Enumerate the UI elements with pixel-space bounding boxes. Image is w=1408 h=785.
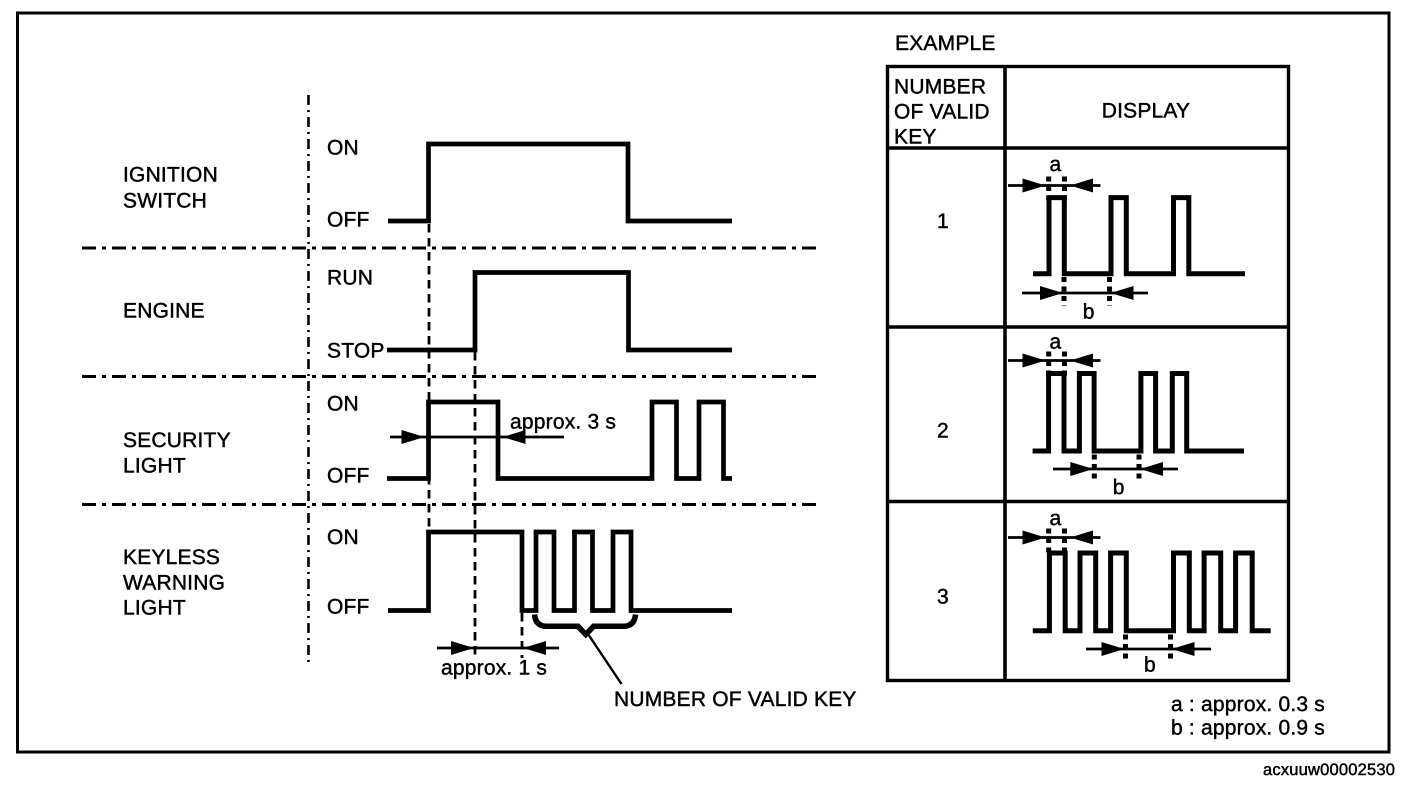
dashed time reference line at keyless pulse end x=522	[521, 613, 524, 658]
svg-text:EXAMPLE: EXAMPLE	[895, 32, 996, 55]
svg-text:LIGHT: LIGHT	[123, 455, 186, 478]
leader line from brace	[588, 634, 622, 684]
approx. 3 s measurement arrow	[390, 436, 564, 439]
svg-text:OF VALID: OF VALID	[894, 101, 990, 124]
b measurement arrow	[1022, 292, 1148, 295]
svg-text:b : approx. 0.9 s: b : approx. 0.9 s	[1171, 717, 1325, 740]
svg-text:acxuuw00002530: acxuuw00002530	[1263, 761, 1395, 779]
svg-text:WARNING: WARNING	[123, 572, 225, 595]
svg-text:approx. 3 s: approx. 3 s	[510, 411, 616, 434]
table row rule 2-3	[888, 500, 1289, 503]
svg-text:OFF: OFF	[327, 596, 370, 619]
svg-text:a : approx. 0.3 s: a : approx. 0.3 s	[1171, 693, 1325, 716]
svg-text:RUN: RUN	[327, 267, 373, 290]
dashed time reference line at ignition-on x=429	[428, 224, 431, 530]
brace under keyless pulses	[535, 615, 636, 635]
svg-text:NUMBER OF VALID KEY: NUMBER OF VALID KEY	[614, 688, 857, 711]
a measurement arrow	[1008, 536, 1101, 539]
svg-text:ON: ON	[327, 137, 359, 160]
table header rule	[888, 146, 1289, 149]
svg-text:NUMBER: NUMBER	[894, 76, 986, 99]
svg-text:a: a	[1050, 153, 1062, 176]
svg-text:SWITCH: SWITCH	[123, 190, 207, 213]
row2 display waveform (2 keys)	[1033, 374, 1244, 452]
svg-text:LIGHT: LIGHT	[123, 597, 186, 620]
svg-text:KEY: KEY	[894, 126, 937, 149]
table column divider	[1003, 67, 1007, 681]
dashed time reference line at engine-run x=475	[474, 352, 477, 658]
a dotted edge markers	[1046, 177, 1051, 204]
svg-text:STOP: STOP	[327, 340, 385, 363]
svg-text:a: a	[1050, 507, 1062, 530]
svg-text:2: 2	[937, 420, 949, 443]
svg-text:ON: ON	[327, 526, 359, 549]
ignition switch waveform	[388, 144, 732, 221]
b measurement arrow	[1053, 468, 1178, 471]
table outer border	[888, 67, 1289, 681]
row1 display waveform (1 key)	[1033, 198, 1245, 274]
b dotted edge markers	[1092, 455, 1097, 483]
a measurement arrow	[1008, 359, 1101, 362]
svg-text:3: 3	[937, 586, 949, 609]
row separator dash-dot line 2	[82, 375, 818, 378]
svg-text:KEYLESS: KEYLESS	[123, 546, 220, 569]
svg-text:ON: ON	[327, 393, 359, 416]
svg-text:approx. 1 s: approx. 1 s	[441, 657, 547, 680]
svg-text:b: b	[1144, 654, 1156, 677]
svg-text:b: b	[1113, 476, 1125, 499]
svg-text:SECURITY: SECURITY	[123, 429, 231, 452]
b dotted edge markers	[1062, 277, 1067, 306]
row3 display waveform (3 keys)	[1033, 553, 1271, 631]
b dotted edge markers	[1123, 635, 1128, 663]
svg-text:OFF: OFF	[327, 209, 370, 232]
row separator dash-dot line 1	[82, 247, 818, 250]
svg-text:1: 1	[937, 210, 949, 233]
engine waveform	[387, 273, 732, 351]
svg-text:IGNITION: IGNITION	[123, 164, 218, 187]
svg-text:DISPLAY: DISPLAY	[1102, 100, 1191, 123]
row separator dash-dot line 3	[82, 503, 818, 506]
approx. 1 s measurement arrow	[437, 647, 559, 650]
svg-text:ENGINE: ENGINE	[123, 300, 205, 323]
svg-text:OFF: OFF	[327, 465, 370, 488]
a measurement arrow	[1008, 184, 1101, 187]
security light waveform	[387, 402, 732, 479]
svg-text:a: a	[1050, 331, 1062, 354]
a dotted edge markers	[1046, 529, 1051, 556]
svg-text:b: b	[1083, 301, 1095, 324]
keyless warning light waveform	[388, 532, 732, 611]
table row rule 1-2	[888, 325, 1289, 328]
vertical dash-dot axis line	[307, 95, 310, 665]
b measurement arrow	[1086, 648, 1211, 651]
a dotted edge markers	[1046, 352, 1051, 379]
